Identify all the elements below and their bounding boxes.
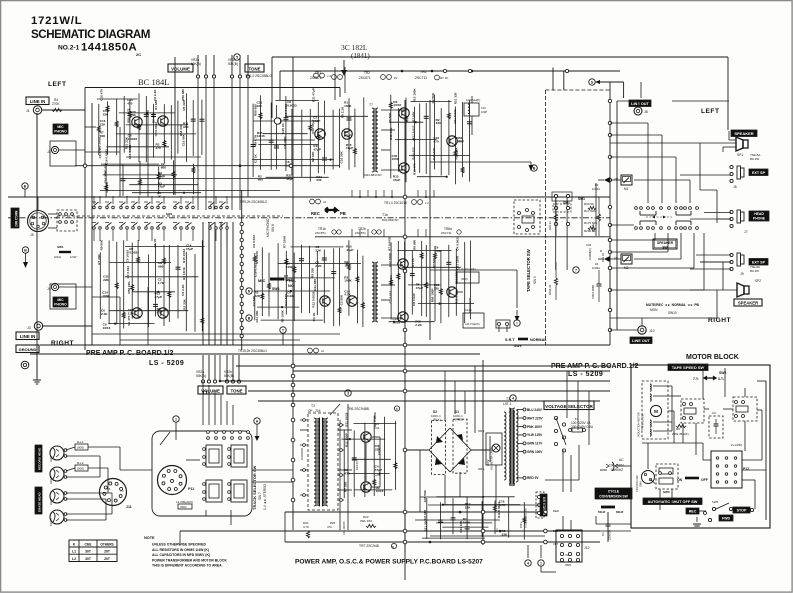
svg-text:100K: 100K — [344, 279, 352, 283]
svg-text:C46: C46 — [586, 243, 592, 247]
svg-text:J12: J12 — [584, 546, 590, 550]
wire TR6b wires — [458, 291, 463, 293]
transistor TR7 — [361, 482, 371, 492]
svg-text:AC: AC — [619, 458, 624, 462]
wire under motor block — [596, 523, 631, 525]
wire top bus inner — [280, 70, 620, 72]
wire left bottom verticals — [202, 381, 204, 425]
svg-text:22K: 22K — [103, 278, 109, 282]
svg-text:(000): (000) — [77, 467, 84, 471]
svg-text:TAPE SPEED SW: TAPE SPEED SW — [672, 365, 705, 370]
svg-text:R5 22K: R5 22K — [182, 99, 186, 110]
svg-text:C12b: C12b — [465, 308, 472, 312]
svg-text:C2 56K: C2 56K — [431, 92, 435, 103]
amp cluster R2 (right ch) — [390, 242, 392, 319]
svg-text:1441850A: 1441850A — [81, 42, 137, 54]
wire vert left x120 x148 — [119, 127, 121, 197]
svg-text:MOTOR BLOCK: MOTOR BLOCK — [686, 354, 739, 361]
svg-text:LINE IN: LINE IN — [30, 99, 46, 104]
svg-text:2C: 2C — [136, 52, 141, 57]
wire AC to motorblock — [617, 465, 631, 467]
label LINE IN top-left — [26, 97, 49, 105]
coil L2 47uH — [464, 103, 479, 116]
svg-text:7: 7 — [575, 269, 577, 273]
svg-text:(RED): (RED) — [455, 418, 463, 422]
label CYCLE CONVERSION SW — [595, 488, 632, 499]
svg-text:47μP: 47μP — [313, 148, 320, 152]
dashed box right of J5 — [57, 210, 77, 231]
wire speaker sp2 conn — [722, 262, 724, 290]
junctions x483 — [481, 510, 485, 514]
wire interstage bus y190.6 — [100, 190, 280, 192]
wire interstage bus y178.6 — [120, 178, 293, 180]
svg-text:10/16: 10/16 — [376, 489, 384, 493]
svg-text:L1: L1 — [72, 550, 76, 554]
svg-text:CYCLE: CYCLE — [608, 490, 620, 494]
svg-text:R56 33K: R56 33K — [454, 147, 458, 160]
svg-text:SW 9: SW 9 — [533, 276, 537, 284]
svg-text:2.2K: 2.2K — [128, 312, 135, 316]
cycle conversion arrow — [601, 506, 615, 509]
transistor TR4b — [398, 259, 408, 269]
svg-text:20T: 20T — [104, 557, 111, 561]
wire top bus outer — [272, 56, 728, 58]
svg-text:C2 56K: C2 56K — [340, 294, 344, 305]
transformer T1 power — [509, 408, 511, 484]
bridge rectifier diamond — [429, 428, 450, 450]
svg-text:R9 680: R9 680 — [413, 240, 417, 250]
label ERASE HEAD — [35, 487, 42, 514]
wire left col bottom x120 — [119, 447, 121, 470]
svg-text:R1 680: R1 680 — [154, 100, 158, 110]
wire bus x175 bottom — [204, 391, 207, 394]
svg-text:22K: 22K — [103, 113, 109, 117]
svg-text:47μP: 47μP — [346, 146, 353, 150]
amp cluster L1 upper — [98, 104, 100, 155]
amp cluster C1 upper — [252, 104, 254, 178]
svg-text:SW5: SW5 — [712, 500, 719, 504]
svg-text:330: 330 — [316, 178, 321, 182]
wire x220 drop — [219, 355, 221, 381]
svg-text:RECORD HEAD: RECORD HEAD — [38, 447, 42, 470]
amp cluster L2 (right ch) — [99, 252, 101, 318]
svg-text:M24-6847AP.: M24-6847AP. — [364, 173, 382, 177]
svg-text:x2: x2 — [321, 349, 324, 353]
svg-text:R11 0.022: R11 0.022 — [453, 109, 457, 123]
svg-text:8Ω 2W: 8Ω 2W — [750, 269, 759, 273]
coil L1 record — [75, 444, 88, 450]
wire left vertical x37 bottom — [36, 113, 38, 380]
node 1 circle — [173, 416, 179, 422]
pilot lamp — [492, 444, 500, 452]
svg-text:J6: J6 — [733, 185, 737, 189]
svg-text:MIC: MIC — [57, 125, 64, 129]
svg-text:C6 10/16: C6 10/16 — [126, 250, 130, 263]
svg-text:S.R.T: S.R.T — [505, 338, 515, 342]
svg-text:(000): (000) — [461, 277, 468, 281]
record head R — [50, 467, 64, 481]
transistor TR2c — [342, 129, 352, 139]
svg-text:10/16: 10/16 — [257, 134, 265, 138]
wire top mid drops — [197, 78, 199, 210]
svg-text:0.0033: 0.0033 — [284, 277, 294, 281]
svg-text:R12 33K: R12 33K — [389, 127, 393, 140]
svg-text:50HZ: 50HZ — [598, 510, 606, 514]
junctions on x293 bus — [291, 364, 295, 368]
wire motor right link — [742, 469, 766, 471]
svg-text:0.0068(K): 0.0068(K) — [588, 248, 592, 260]
svg-text:2.2K: 2.2K — [315, 264, 322, 268]
wire T1b secondary right — [381, 264, 403, 266]
tension sw — [642, 471, 655, 484]
wire left inputs to cluster — [42, 325, 92, 327]
svg-text:47μP: 47μP — [346, 248, 353, 252]
svg-text:C2: C2 — [712, 411, 716, 415]
svg-text:4: 4 — [512, 397, 514, 401]
wire bus y531 — [180, 530, 600, 532]
svg-text:PHONO: PHONO — [54, 303, 67, 307]
label HEAD PHONE — [749, 211, 769, 221]
svg-text:C4 56K: C4 56K — [389, 275, 393, 286]
wire right vertical x563 — [563, 71, 565, 91]
svg-text:3: 3 — [347, 392, 349, 396]
cap C2 box — [709, 416, 723, 438]
svg-text:10/16: 10/16 — [393, 320, 401, 324]
svg-text:1N34A: 1N34A — [592, 266, 600, 270]
svg-text:2SC871: 2SC871 — [355, 231, 366, 235]
svg-text:100Ω/200: 100Ω/200 — [300, 447, 304, 460]
VU meter M1 — [621, 175, 632, 185]
svg-text:MIC: MIC — [57, 298, 64, 302]
svg-text:OFF: OFF — [701, 478, 708, 482]
svg-text:3WL 150: 3WL 150 — [360, 519, 372, 523]
node B2 circle — [246, 315, 252, 321]
wire right-mid long h2 — [430, 269, 517, 271]
svg-text:50K(B): 50K(B) — [228, 62, 238, 66]
svg-text:R24 470: R24 470 — [355, 460, 359, 470]
jack J9 ext sp2 — [730, 253, 733, 256]
svg-text:47μP: 47μP — [186, 247, 193, 251]
wire interstage bus y165.7 — [75, 165, 340, 167]
svg-text:R26 47Ω: R26 47Ω — [377, 445, 381, 455]
svg-text:R2 33K: R2 33K — [311, 151, 315, 162]
svg-text:R12 0.0033: R12 0.0033 — [311, 291, 315, 307]
node N circle — [246, 288, 252, 294]
wire T2 left taps — [300, 419, 308, 421]
svg-text:0.01: 0.01 — [374, 426, 380, 430]
svg-text:C8 0.0033: C8 0.0033 — [154, 122, 158, 137]
transistor TR1c — [315, 129, 325, 139]
svg-text:R3 1K: R3 1K — [312, 312, 316, 322]
svg-text:TONE: TONE — [248, 66, 260, 71]
label RECORD HEAD — [35, 445, 42, 472]
svg-text:0.022: 0.022 — [287, 294, 295, 298]
capacitor ticks above y197 — [351, 190, 353, 197]
svg-text:4.7K: 4.7K — [303, 525, 309, 529]
svg-text:7O: 7O — [120, 489, 123, 493]
ground jack — [21, 361, 29, 369]
svg-text:2SC711: 2SC711 — [415, 76, 427, 80]
svg-text:R56 680: R56 680 — [181, 89, 185, 101]
svg-text:470: 470 — [156, 146, 161, 150]
transistor TR5 — [447, 136, 457, 146]
speaker SP1 — [743, 140, 748, 148]
svg-text:R7 1K: R7 1K — [440, 76, 448, 80]
svg-text:C16 0.022: C16 0.022 — [128, 145, 132, 160]
svg-text:SW1: SW1 — [57, 245, 64, 249]
svg-text:PB: PB — [340, 211, 346, 216]
wire J2 circle-B — [22, 183, 28, 189]
svg-text:50K(A): 50K(A) — [196, 374, 206, 378]
track selector cluster — [206, 445, 222, 467]
svg-text:R11 680: R11 680 — [313, 279, 317, 291]
svg-text:3-¾: 3-¾ — [718, 377, 724, 381]
svg-text:0.0033: 0.0033 — [129, 251, 139, 255]
transistor TR2b — [158, 308, 168, 318]
svg-text:SW 8: SW 8 — [271, 224, 275, 232]
svg-text:150K: 150K — [344, 104, 352, 108]
svg-text:100P: 100P — [481, 110, 487, 114]
J12 connector — [556, 530, 582, 562]
svg-text:2SC871: 2SC871 — [359, 76, 371, 80]
svg-text:1: 1 — [540, 562, 542, 566]
svg-text:C34 100/15: C34 100/15 — [342, 521, 346, 535]
svg-text:R7 56K: R7 56K — [432, 257, 436, 268]
svg-text:56K: 56K — [130, 113, 136, 117]
svg-text:HEAD: HEAD — [754, 212, 764, 216]
svg-text:DIN CONN: DIN CONN — [15, 210, 19, 226]
transistor TR1b — [132, 308, 142, 318]
svg-text:POWER TRANSFORMER AND MOTOR: POWER TRANSFORMER AND MOTOR BLOCK — [152, 558, 227, 562]
svg-text:C45 56K: C45 56K — [423, 489, 427, 502]
tape speed sw dashed box2 — [733, 397, 757, 421]
svg-text:LEFT: LEFT — [701, 108, 719, 115]
svg-text:(000): (000) — [180, 505, 187, 509]
label TONE mid — [227, 386, 246, 394]
svg-text:R56 100P: R56 100P — [431, 289, 435, 303]
transistor TR5b — [398, 312, 408, 322]
svg-text:R175 53K: R175 53K — [584, 221, 597, 225]
svg-text:R21 47μP: R21 47μP — [312, 88, 316, 102]
label LINE OUT right-mid — [630, 337, 652, 344]
svg-text:TR1,4 2SC1018: TR1,4 2SC1018 — [384, 201, 407, 205]
label LINE IN left-mid — [16, 332, 39, 340]
svg-text:R3 0.022: R3 0.022 — [126, 266, 130, 279]
svg-text:20T: 20T — [104, 550, 111, 554]
bridge dashed box D1 — [453, 419, 467, 473]
wire left vertical bus — [84, 88, 86, 351]
wire long v x335 — [334, 67, 336, 100]
svg-text:T2: T2 — [311, 404, 315, 408]
wire power area verticals — [404, 450, 406, 552]
wire T7 secondary right — [381, 109, 405, 111]
motor M circle — [650, 405, 661, 416]
motor block outer box — [631, 365, 770, 528]
svg-text:150K: 150K — [463, 520, 471, 524]
svg-text:R7 33K: R7 33K — [343, 481, 347, 492]
svg-text:EXT SP: EXT SP — [752, 171, 766, 175]
svg-text:100P: 100P — [434, 249, 441, 253]
svg-text:CEE: CEE — [85, 543, 93, 547]
svg-text:TYPE 1C-1NP: TYPE 1C-1NP — [641, 413, 645, 430]
svg-text:R30 56: R30 56 — [584, 202, 594, 206]
svg-text:C8 100P: C8 100P — [283, 137, 287, 149]
svg-text:47μP: 47μP — [344, 134, 351, 138]
wire bottom long x405-x545 — [405, 576, 545, 578]
svg-text:1: 1 — [175, 418, 177, 422]
svg-text:22K: 22K — [100, 123, 106, 127]
svg-text:50/60HZ: 50/60HZ — [611, 468, 623, 472]
svg-text:30T: 30T — [85, 557, 92, 561]
svg-text:x2: x2 — [323, 200, 326, 204]
switch bank right row1 — [635, 207, 638, 210]
svg-text:ALL RESISTORS IN OHMS 1/4W: ALL RESISTORS IN OHMS 1/4W (K) — [152, 548, 209, 552]
wire speaker SP1 conn — [729, 139, 736, 141]
svg-text:SW1: SW1 — [166, 212, 173, 216]
svg-text:7-½: 7-½ — [693, 377, 699, 381]
svg-text:R11 0.022: R11 0.022 — [411, 125, 415, 139]
svg-text:C6 1K: C6 1K — [153, 238, 157, 248]
wire bus y542 — [285, 541, 600, 543]
wire center vertical x405 — [404, 100, 406, 580]
wire voltage sel to T1 — [541, 410, 556, 416]
svg-text:C6 470: C6 470 — [152, 113, 156, 123]
svg-text:ERASE HEAD: ERASE HEAD — [38, 491, 42, 512]
svg-text:MIC/PHONO: MIC/PHONO — [266, 218, 270, 237]
svg-text:(+)6V: (+)6V — [374, 473, 381, 477]
svg-text:680: 680 — [158, 265, 163, 269]
svg-text:47μP: 47μP — [393, 178, 400, 182]
svg-text:C4 0.0033: C4 0.0033 — [456, 236, 460, 251]
coil L2 record — [75, 465, 88, 471]
svg-text:TR15,2b 2SC458LG: TR15,2b 2SC458LG — [238, 349, 267, 353]
svg-text:BLU 240V: BLU 240V — [527, 408, 543, 412]
wire bus y391 — [248, 390, 610, 392]
wire TR5 to L2 coil — [458, 140, 464, 142]
label SPEAKER right-top — [731, 130, 757, 137]
transistor TR6 — [361, 432, 371, 442]
erase head R — [50, 510, 64, 524]
label FWD blk — [719, 515, 733, 521]
coil table — [69, 540, 117, 562]
svg-text:GRN 117V: GRN 117V — [527, 442, 543, 446]
svg-text:47μP: 47μP — [375, 468, 382, 472]
wire bottom mid horizontals — [428, 504, 545, 506]
label SPEAKER boxed right — [734, 299, 762, 306]
svg-text:1K: 1K — [157, 195, 162, 199]
svg-text:SW1: SW1 — [563, 201, 570, 205]
node S with arrow — [589, 79, 595, 85]
svg-text:C6: C6 — [107, 487, 111, 491]
transformer T7 upper — [372, 108, 374, 172]
svg-text:TR6: TR6 — [420, 70, 427, 74]
svg-text:VOLTAGE SELECTOR: VOLTAGE SELECTOR — [545, 404, 593, 409]
wire bridge connections — [405, 449, 429, 451]
svg-text:R-L1: R-L1 — [77, 440, 84, 444]
transistor TR3 — [399, 108, 409, 118]
svg-text:POWER AMP, O.S.C.& POWER SUP: POWER AMP, O.S.C.& POWER SUPPLY P.C.BOAR… — [295, 559, 483, 566]
label TAPE SPEED SW — [668, 364, 708, 371]
transistor TR1 — [132, 117, 142, 127]
transformer T1 tap labels — [517, 409, 523, 411]
svg-text:50K(B): 50K(B) — [224, 374, 234, 378]
label MIC/PHONO mid — [53, 297, 68, 307]
wire interstage lower y334 — [92, 333, 340, 335]
wire dashed vertical x545 — [544, 90, 546, 345]
erase head L — [50, 489, 64, 503]
svg-text:47μP: 47μP — [155, 295, 162, 299]
svg-text:30T: 30T — [85, 550, 92, 554]
svg-text:470: 470 — [127, 102, 132, 106]
transistor TR2 — [158, 116, 168, 126]
svg-text:R19b 33: R19b 33 — [548, 284, 552, 295]
fuse F1 — [569, 429, 572, 432]
induction motor dashed box — [642, 381, 668, 439]
svg-text:B: B — [396, 407, 398, 411]
svg-text:B: B — [248, 317, 251, 321]
amp cluster L1 lower-text — [105, 167, 107, 198]
svg-text:LS - 5209: LS - 5209 — [568, 371, 603, 378]
svg-text:47μP: 47μP — [416, 286, 423, 290]
svg-text:R7 0.0033: R7 0.0033 — [388, 236, 392, 251]
svg-text:N: N — [248, 290, 251, 294]
amp cluster C2 (right ch) — [254, 253, 256, 320]
svg-text:YLW 125V: YLW 125V — [527, 433, 543, 437]
svg-text:TR2: TR2 — [364, 71, 370, 75]
amp cluster R1 upper — [390, 95, 392, 179]
transistor TR4 — [399, 163, 409, 173]
cap C1 label — [607, 512, 609, 542]
bridge dashed box D2 — [432, 421, 446, 475]
svg-text:C2 0.022: C2 0.022 — [388, 290, 392, 303]
svg-text:1721W/L: 1721W/L — [31, 15, 82, 27]
node 3 circle — [345, 390, 351, 396]
connector P11 — [158, 466, 187, 495]
svg-text:TR6 2SC948B: TR6 2SC948B — [347, 407, 370, 411]
svg-text:R56 680: R56 680 — [253, 104, 257, 116]
label EXT SP right-1 — [749, 169, 768, 176]
svg-text:THIS IS DIFFERENT ACCORDING: THIS IS DIFFERENT ACCORDING TO AREA. — [152, 564, 223, 568]
wire bus y371 — [293, 370, 610, 372]
transformer T1b lower — [372, 262, 374, 322]
svg-text:TR1,2 2SC458LG: TR1,2 2SC458LG — [245, 74, 272, 78]
junction circles bus x610 lower — [608, 238, 611, 241]
svg-text:0.0033: 0.0033 — [128, 137, 138, 141]
svg-text:LST-1: LST-1 — [503, 402, 512, 406]
svg-text:LEFT: LEFT — [49, 455, 53, 462]
wire bridge-to-bottom verticals — [419, 450, 421, 512]
node circles 4 1 — [525, 560, 531, 566]
svg-text:2.2K: 2.2K — [415, 323, 422, 327]
wire bus y366 — [236, 365, 610, 367]
label STOP blk — [733, 507, 750, 513]
speaker SP2 — [744, 286, 749, 294]
svg-text:FWD: FWD — [722, 517, 731, 521]
svg-text:R9 10/16: R9 10/16 — [255, 251, 259, 264]
wire track sel to P11 — [205, 510, 207, 516]
node B circle — [22, 247, 28, 253]
label LINE OUT right-top — [629, 100, 651, 107]
junction dots bottom center — [459, 511, 462, 514]
svg-text:R15 10/16: R15 10/16 — [182, 248, 186, 263]
transistor TR6b — [447, 287, 457, 297]
svg-text:LOW: LOW — [70, 255, 77, 259]
DIN connector J5 — [28, 211, 49, 232]
wire bus y381 — [220, 380, 610, 382]
VU meter M2 — [621, 254, 632, 264]
svg-text:I: I — [517, 322, 518, 326]
svg-text:6V: 6V — [394, 76, 398, 80]
